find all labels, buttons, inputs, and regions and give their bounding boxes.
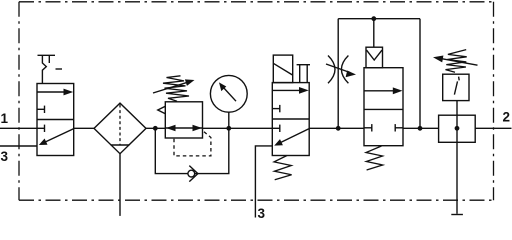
outlet block B1 (439, 115, 476, 142)
wire V3 to outlet block (403, 127, 439, 129)
valve V1 body (manual 3/2 on-off valve) (37, 84, 74, 156)
regulator R1 adjustment arrow (153, 82, 187, 93)
valve V1 blocked port T (bottom box) (37, 127, 45, 129)
pilot riser wire (left, through throttle) (337, 19, 339, 129)
filter F1 bowl line (111, 144, 130, 146)
filter F1 element (dashed) (119, 105, 121, 145)
manual override of V2 (297, 64, 310, 66)
pressure switch S1 spring (446, 50, 467, 73)
valve V1 exhaust diagonal arrow (42, 129, 74, 144)
node junction dot (block center) (455, 126, 460, 131)
valve V2 flow arrow (top box) (272, 89, 301, 91)
wire port 3 (0, 145, 37, 147)
pilot head of V3 (pneumatic pilot) (366, 47, 383, 67)
check valve bypass wire (down, across, up) (155, 128, 229, 173)
valve V3 flow arrow (top box) (364, 90, 396, 92)
wire regulator to valve V2 (203, 127, 273, 129)
node junction dot (pilot top) (371, 16, 376, 21)
node junction dot (pilot branch) (418, 126, 423, 131)
regulator R1 vent triangle (158, 106, 166, 113)
regulator R1 adjustment spring (163, 76, 189, 102)
svg-text:1: 1 (1, 111, 9, 126)
pilot right riser wire (419, 19, 421, 129)
throttle TH1 (adjustable) arcs (328, 56, 335, 84)
valve V2 body (solenoid 3/2) (272, 83, 309, 156)
valve V3 blocked port T (bottom box left) (364, 127, 372, 129)
wire port 2 (475, 127, 511, 129)
gauge G1 needle (223, 87, 237, 102)
valve V3 return spring (366, 146, 383, 170)
valve V1 blocked port T (top box) (37, 108, 45, 110)
regulator R1 pilot line (dashed) (174, 132, 211, 156)
valve V1 flow arrow (top box) (37, 91, 66, 93)
wire V1 to filter (74, 127, 94, 129)
svg-text:3: 3 (258, 206, 266, 221)
check valve CV1 (188, 170, 195, 177)
valve V2 exhaust diagonal arrow (277, 129, 309, 144)
pressure gauge G1 (210, 75, 247, 112)
valve V2 blocked port T (top box) (272, 108, 280, 110)
pilot drop wire to pilot head (373, 19, 375, 48)
enclosure border (dash-dot frame) (19, 2, 494, 200)
node junction dot (gauge/bypass) (226, 126, 231, 131)
svg-text:2: 2 (503, 110, 511, 125)
vent end bar (451, 214, 463, 216)
node junction dot (bypass branch) (153, 126, 158, 131)
svg-text:3: 3 (1, 149, 9, 164)
vent wire through block (456, 101, 458, 214)
regulator R1 body (165, 102, 202, 138)
pressure switch S1 adjustment arrow (441, 59, 478, 66)
valve V3 blocked port T (bottom box right) (395, 127, 403, 129)
valve V1 minus sign (56, 68, 63, 70)
valve V3 body (piloted 2/2 soft-start) (364, 68, 403, 146)
regulator R1 flow path with outward arrows (165, 127, 202, 129)
valve V2 exhaust wire to port 3 (255, 146, 272, 218)
valve V1 manual actuator (knob with detent) (38, 54, 56, 56)
node junction dot (throttle branch) (336, 126, 341, 131)
solenoid coil of V2 (273, 55, 292, 83)
wire filter to regulator (146, 127, 165, 129)
valve V2 return spring (274, 156, 292, 180)
filter F1 drain line (119, 154, 121, 216)
wire port 1 (0, 127, 37, 129)
valve V2 blocked port T (bottom box) (272, 127, 280, 129)
filter F1 (diamond with separator) (94, 103, 146, 154)
wire V2 to soft-start V3 (309, 127, 364, 129)
pressure switch S1 box (443, 74, 469, 100)
pilot top wire (338, 18, 420, 20)
throttle TH1 adjustment arrow (326, 64, 350, 73)
gauge stem wire (228, 112, 230, 128)
pressure switch S1 contact (454, 81, 457, 94)
